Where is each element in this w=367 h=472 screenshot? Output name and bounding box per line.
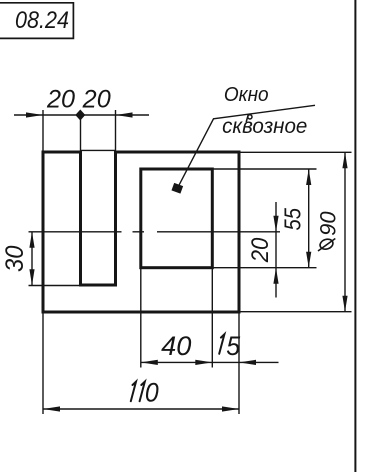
svg-text:40: 40 <box>161 330 191 361</box>
svg-text:20: 20 <box>246 238 273 264</box>
svg-text:Окно: Окно <box>224 83 269 106</box>
svg-text:0: 0 <box>145 379 159 408</box>
svg-text:20: 20 <box>46 86 75 114</box>
svg-text:5: 5 <box>226 330 240 361</box>
svg-text:08.24: 08.24 <box>15 6 69 34</box>
svg-text:55: 55 <box>279 207 306 230</box>
svg-text:30: 30 <box>2 245 30 272</box>
svg-text:90: 90 <box>315 211 340 236</box>
svg-text:20: 20 <box>82 86 111 114</box>
svg-text:сквозное: сквозное <box>222 115 307 138</box>
